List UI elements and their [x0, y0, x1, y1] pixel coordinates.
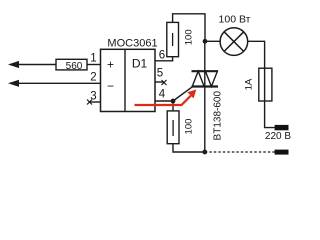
wire lamp right to fuse [248, 41, 275, 127]
pin 3 stub [90, 101, 102, 103]
svg-text:+: + [107, 58, 114, 72]
wire R1 top to top rail [173, 14, 205, 42]
svg-text:2: 2 [90, 72, 96, 84]
pin 6 wire [155, 57, 173, 61]
resistor R2 body [167, 111, 179, 144]
wire gate diagonal [173, 87, 192, 101]
arrow head 2 [8, 80, 19, 87]
wire R560 to pin 1 [87, 64, 101, 66]
svg-text:−: − [107, 79, 114, 93]
no-connect X pin 5 [162, 80, 167, 85]
resistor R2 inner mark [172, 120, 174, 136]
resistor R1 body [167, 22, 179, 56]
svg-text:6: 6 [159, 50, 165, 62]
svg-text:560: 560 [66, 61, 83, 72]
optocoupler U1 body [101, 49, 156, 111]
wire pin4 node to R2 [172, 101, 174, 111]
terminal upper [275, 125, 289, 130]
svg-text:220 В: 220 В [265, 131, 291, 142]
terminal lower [275, 150, 289, 155]
pin 5 stub [155, 81, 164, 83]
fuse FU1 through wire [264, 68, 266, 101]
lamp EL1 cross [224, 32, 244, 52]
arrow head 1 [8, 61, 19, 68]
wire bottom dashed mains [205, 151, 275, 153]
svg-text:4: 4 [159, 89, 166, 101]
fuse FU1 body [259, 68, 272, 101]
svg-text:100: 100 [184, 119, 195, 135]
triac main vertical lower [204, 41, 206, 152]
gate drive red trace [135, 96, 191, 105]
wire R2 bottom to bottom rail [173, 144, 205, 152]
node pin4 junction [171, 99, 176, 104]
svg-text:5: 5 [157, 68, 163, 80]
svg-text:BT138-600: BT138-600 [213, 91, 224, 141]
svg-text:1: 1 [90, 53, 96, 65]
wire lamp left [205, 40, 220, 42]
node lamp junction [203, 39, 208, 44]
triac VS1 left triangle up [192, 71, 204, 86]
pin 4 wire [155, 100, 173, 102]
svg-text:MOC3061: MOC3061 [107, 38, 157, 50]
resistor R1 inner mark [172, 33, 174, 46]
no-connect X pin 3 [87, 100, 92, 105]
lamp EL1 circle [220, 28, 248, 56]
gate drive red arrow head [187, 90, 196, 99]
triac VS1 top bar [192, 70, 219, 72]
optocoupler inner divider [124, 49, 126, 111]
svg-text:1A: 1A [244, 78, 255, 90]
svg-text:100: 100 [184, 29, 195, 45]
triac VS1 bottom bar [192, 85, 219, 87]
svg-text:D1: D1 [132, 57, 148, 71]
triac VS1 right triangle down [205, 71, 217, 86]
wire arrow1 to R560 [10, 64, 56, 66]
resistor R560 body [56, 59, 87, 70]
wire arrow2 to pin 2 [10, 82, 101, 84]
node bottom rail junction [202, 150, 207, 155]
svg-text:100 Вт: 100 Вт [219, 13, 251, 25]
